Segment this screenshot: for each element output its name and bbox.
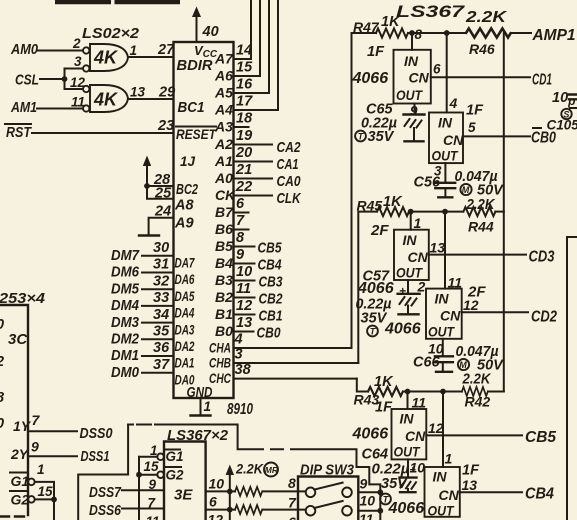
svg-text:DA2: DA2 (175, 338, 195, 354)
svg-text:14: 14 (236, 43, 252, 59)
svg-text:12: 12 (463, 297, 479, 313)
svg-text:11: 11 (359, 511, 374, 520)
junction node to 4066 sw5 (405, 389, 411, 395)
wire R47 to R46 with taps (408, 32, 466, 34)
svg-text:B1: B1 (215, 306, 233, 322)
svg-text:M: M (459, 360, 467, 370)
analog switch 4066 sw1 (394, 27, 431, 104)
svg-text:DM7: DM7 (111, 247, 140, 264)
svg-text:34: 34 (153, 307, 169, 323)
svg-text:DM4: DM4 (111, 297, 140, 314)
svg-text:8: 8 (0, 390, 5, 406)
svg-text:1: 1 (150, 443, 158, 458)
A9 pin 24 to ground (149, 218, 174, 235)
node CHA bus up to R47 (352, 33, 377, 348)
svg-text:6: 6 (209, 494, 217, 510)
svg-text:3: 3 (74, 54, 82, 69)
wire AM0 to gate U?A pin2 (38, 50, 83, 52)
svg-text:BC2: BC2 (176, 182, 198, 198)
enable G2 (pin 15) of 3C (28, 496, 35, 503)
svg-text:4: 4 (449, 95, 458, 111)
svg-text:17: 17 (236, 94, 253, 110)
svg-text:B3: B3 (215, 272, 233, 288)
svg-text:LS367: LS367 (396, 3, 465, 21)
Vcc power arrow pin 40 (196, 15, 198, 42)
svg-text:DM3: DM3 (111, 314, 140, 331)
svg-text:DM5: DM5 (111, 280, 140, 297)
svg-text:DSS7: DSS7 (89, 484, 122, 501)
svg-text:4K: 4K (93, 48, 119, 68)
capacitor C66 0.047u 50V (pin 10) (413, 339, 504, 374)
capacitor C105 10p at right edge (547, 90, 577, 133)
pull-up power arrow (229, 473, 231, 491)
svg-text:DM6: DM6 (111, 264, 140, 281)
svg-text:+: + (399, 284, 406, 298)
svg-text:10: 10 (360, 493, 376, 509)
svg-text:IN: IN (433, 469, 448, 485)
svg-text:DA5: DA5 (175, 288, 195, 304)
analog switch 4066 sw5 (392, 392, 427, 460)
svg-text:A3: A3 (214, 119, 233, 135)
svg-text:CD3: CD3 (529, 249, 555, 266)
wire to BC2 pin 28 and A8 pin 25 (147, 186, 174, 199)
svg-text:0: 0 (0, 416, 4, 432)
svg-text:B5: B5 (215, 238, 233, 254)
svg-text:2.2K: 2.2K (235, 461, 264, 477)
svg-text:6: 6 (236, 196, 245, 212)
node CHB bus up to R45 (358, 212, 377, 363)
svg-text:5: 5 (468, 120, 476, 135)
wire gate1 output to BDIR (129, 56, 174, 58)
wire R42 to summing bus (488, 391, 504, 393)
svg-text:C56: C56 (414, 175, 442, 191)
nor gate 4K (LS02) bottom, pins 12,11 -> 13 (90, 85, 128, 112)
svg-text:2.2K: 2.2K (465, 9, 508, 26)
svg-text:RST: RST (6, 124, 33, 141)
svg-text:12: 12 (208, 512, 224, 520)
svg-text:B7: B7 (215, 204, 234, 220)
svg-text:BC1: BC1 (178, 100, 205, 116)
svg-text:8: 8 (236, 230, 245, 246)
pin 12 wire to CD2 (462, 311, 528, 313)
svg-text:1: 1 (130, 43, 138, 58)
svg-text:AM1: AM1 (10, 99, 37, 116)
svg-text:IN: IN (404, 53, 419, 69)
svg-text:9: 9 (410, 104, 418, 119)
pin 6 wire to CD1 (431, 76, 530, 78)
svg-text:CHA: CHA (209, 341, 231, 356)
svg-text:A1: A1 (214, 153, 233, 169)
resistor R42 2.2K (462, 372, 492, 410)
enable G2 (pin 15) of 3E (157, 471, 164, 478)
svg-text:CD2: CD2 (531, 309, 557, 326)
junction CSL (62, 76, 68, 82)
wire R45 to R44 with taps (409, 211, 463, 213)
enable G1 (pin 1) of 3E (157, 454, 164, 461)
resistor R46 2.2K (465, 9, 511, 57)
svg-text:18: 18 (236, 111, 253, 127)
svg-text:DA6: DA6 (175, 271, 195, 287)
svg-text:CA1: CA1 (277, 156, 299, 173)
svg-text:31: 31 (153, 257, 169, 273)
pin 5 wire to CB0 (463, 135, 530, 137)
svg-text:C66: C66 (413, 355, 441, 371)
svg-text:30: 30 (153, 240, 169, 256)
svg-text:OUT: OUT (394, 444, 421, 460)
svg-text:1F: 1F (367, 44, 385, 60)
svg-text:8: 8 (415, 27, 423, 42)
svg-text:2F: 2F (370, 222, 389, 239)
resistor R43 1K (354, 374, 403, 416)
svg-text:CD1: CD1 (532, 72, 552, 89)
svg-text:IN: IN (435, 291, 450, 307)
resistor R44 2.2K (463, 197, 495, 235)
wire to DIP SW3 row2 (263, 509, 306, 511)
svg-text:4066: 4066 (388, 500, 425, 517)
svg-text:C105: C105 (547, 118, 577, 133)
svg-text:CB1: CB1 (259, 308, 283, 325)
junction node to 4066 sw1 (409, 30, 415, 36)
svg-text:CN: CN (439, 487, 460, 503)
svg-text:2: 2 (417, 279, 426, 295)
svg-text:8: 8 (288, 475, 296, 491)
svg-text:DM1: DM1 (111, 347, 139, 364)
capacitor C57 0.22u 35V (pin 2) (356, 269, 426, 337)
wire RST to RESET pin 23 (32, 132, 174, 134)
svg-text:G1: G1 (11, 473, 30, 489)
svg-text:4066: 4066 (384, 321, 421, 338)
svg-text:CN: CN (443, 132, 464, 148)
nor gate 4K (LS02) top, pins 2,3 -> 1 (90, 44, 128, 71)
svg-text:CB4: CB4 (525, 486, 554, 503)
svg-text:G2: G2 (11, 492, 30, 508)
svg-text:37: 37 (153, 357, 170, 373)
capacitor C65 0.22u 35V (pin 9) (355, 102, 424, 146)
svg-text:11: 11 (448, 275, 463, 291)
switch row 1 (306, 483, 352, 498)
svg-text:15: 15 (144, 459, 160, 474)
svg-text:R42: R42 (465, 394, 491, 410)
svg-text:13: 13 (430, 240, 446, 256)
svg-text:OUT: OUT (396, 87, 423, 103)
power arrow at BC2 (146, 164, 148, 186)
svg-text:3E: 3E (174, 487, 193, 504)
right margin bus with stub (567, 237, 577, 520)
wire R43 to R42 with taps (403, 391, 462, 393)
svg-text:16: 16 (236, 77, 253, 93)
svg-text:DM2: DM2 (111, 331, 140, 348)
svg-text:A9: A9 (174, 216, 194, 232)
svg-text:OUT: OUT (432, 148, 459, 164)
svg-text:1K: 1K (383, 194, 403, 210)
svg-text:1: 1 (204, 399, 212, 414)
svg-text:4066: 4066 (352, 70, 389, 87)
svg-text:CSL: CSL (15, 72, 39, 89)
svg-text:15: 15 (38, 484, 54, 499)
svg-text:4066: 4066 (352, 426, 389, 443)
svg-text:10: 10 (209, 476, 225, 492)
wire gate2 output to BC1 (129, 98, 174, 100)
svg-text:AMP1: AMP1 (532, 27, 576, 44)
svg-text:35V: 35V (368, 129, 395, 145)
svg-text:4K: 4K (93, 90, 119, 110)
node CHC jog down to R43 (357, 379, 368, 392)
svg-text:20: 20 (235, 145, 252, 161)
svg-text:13: 13 (462, 477, 478, 493)
svg-text:B0: B0 (215, 323, 233, 339)
svg-text:23: 23 (157, 118, 174, 134)
svg-text:1: 1 (445, 451, 453, 467)
analog switch 4066 sw6 (425, 392, 481, 519)
svg-text:G2: G2 (166, 468, 185, 483)
IC LS367 location 3E (cut at bottom) (164, 442, 206, 520)
svg-text:B6: B6 (215, 221, 233, 237)
svg-text:OUT: OUT (428, 503, 455, 519)
section continuation dash line (128, 425, 380, 520)
svg-text:B2: B2 (215, 289, 233, 305)
svg-text:DA7: DA7 (175, 255, 196, 271)
svg-text:CB5: CB5 (525, 429, 557, 446)
junction node to 4066 sw4 (442, 209, 448, 215)
svg-text:A4: A4 (214, 102, 233, 118)
svg-text:2: 2 (72, 36, 81, 51)
svg-text:AM0: AM0 (10, 41, 38, 58)
wire R44 to summing bus (495, 211, 503, 213)
svg-text:DSS0: DSS0 (80, 425, 114, 442)
svg-text:RESET: RESET (176, 126, 217, 142)
svg-text:36: 36 (153, 340, 170, 356)
wire CSL to gate inputs 3 and 12 (40, 69, 83, 90)
svg-text:1J: 1J (180, 154, 196, 169)
svg-text:1K: 1K (374, 374, 394, 390)
analog switch 4066 sw4 (426, 212, 486, 340)
svg-text:BDIR: BDIR (177, 58, 214, 74)
svg-text:CB3: CB3 (259, 274, 284, 291)
svg-text:7: 7 (288, 495, 297, 511)
svg-text:OUT: OUT (428, 324, 455, 340)
svg-text:DSS6: DSS6 (89, 502, 122, 519)
svg-text:38: 38 (235, 362, 252, 378)
svg-text:9: 9 (236, 247, 244, 263)
svg-text:1: 1 (414, 215, 422, 231)
svg-text:35V: 35V (361, 311, 388, 327)
svg-text:DM0: DM0 (111, 364, 140, 381)
svg-text:11: 11 (412, 395, 427, 411)
svg-text:MR: MR (265, 465, 279, 475)
svg-text:3: 3 (235, 347, 243, 363)
svg-text:CB0: CB0 (257, 325, 282, 342)
svg-text:21: 21 (235, 162, 252, 178)
wire G1/G2 tie down across DSS7 (138, 457, 140, 520)
svg-text:8910: 8910 (227, 401, 253, 418)
capacitor C64 0.22u 35V (pin 10) (362, 447, 426, 505)
svg-text:M: M (462, 185, 470, 195)
svg-text:19: 19 (236, 128, 252, 144)
svg-text:A5: A5 (214, 85, 233, 101)
resistor R47 1K (353, 14, 408, 38)
svg-text:IN: IN (400, 411, 415, 427)
svg-text:R47: R47 (353, 19, 380, 35)
svg-text:13: 13 (130, 85, 146, 100)
svg-text:CB5: CB5 (258, 240, 283, 257)
svg-text:22: 22 (235, 179, 252, 195)
resistor R45 1K (357, 194, 410, 216)
svg-text:IN: IN (403, 232, 418, 248)
ground (191, 414, 211, 416)
svg-text:4: 4 (234, 332, 243, 348)
svg-text:A8: A8 (174, 198, 194, 214)
svg-text:24: 24 (154, 204, 171, 220)
svg-text:CN: CN (405, 428, 426, 444)
svg-text:2.2K: 2.2K (462, 372, 492, 388)
cut-off IC outline between 3C and 3E (78, 425, 128, 520)
svg-text:7: 7 (32, 412, 41, 428)
circled MR marking (264, 463, 278, 477)
svg-text:DSS1: DSS1 (81, 448, 110, 465)
svg-text:G1: G1 (166, 449, 184, 464)
switch block DIP SW3 (cut at bottom) (298, 477, 358, 520)
svg-text:1K: 1K (381, 14, 401, 30)
svg-text:A7: A7 (214, 51, 234, 67)
svg-text:32: 32 (153, 273, 169, 289)
svg-text:9: 9 (360, 476, 368, 492)
IC 8910 (PSG, location 1J) body (174, 42, 234, 398)
cut-off IC bottom edge at top margin (55, 0, 180, 4)
svg-text:2Y: 2Y (10, 446, 30, 462)
switch row 2 (306, 501, 352, 516)
svg-text:3C: 3C (8, 331, 28, 348)
wire AM1 to gate pin 11 (37, 108, 83, 110)
svg-text:1F: 1F (466, 103, 484, 119)
svg-text:2.2K: 2.2K (466, 197, 496, 213)
junction G1/G2 tie (51, 497, 57, 503)
pull-up resistor 2.2K row1 (235, 461, 264, 496)
svg-text:CHC: CHC (209, 371, 231, 386)
analog switch 4066 sw3 (394, 212, 429, 281)
svg-text:40: 40 (202, 24, 219, 40)
svg-text:DA4: DA4 (175, 305, 195, 321)
svg-text:1: 1 (37, 462, 45, 477)
svg-text:CLK: CLK (277, 190, 302, 207)
svg-text:LS02×2: LS02×2 (82, 26, 139, 42)
svg-text:DA1: DA1 (175, 355, 195, 371)
svg-text:35V: 35V (381, 476, 408, 492)
svg-text:DA3: DA3 (175, 321, 195, 337)
svg-text:2: 2 (0, 354, 4, 370)
svg-text:CN: CN (409, 70, 430, 86)
svg-text:CB2: CB2 (259, 291, 284, 308)
svg-text:R46: R46 (469, 41, 495, 57)
svg-text:33: 33 (153, 290, 169, 306)
junction node to 4066 sw2 (444, 30, 450, 36)
svg-text:CN: CN (440, 308, 461, 324)
svg-text:6: 6 (288, 514, 296, 520)
junction node to 4066 sw6 (440, 389, 446, 395)
ground (139, 234, 159, 236)
svg-text:A6: A6 (214, 68, 233, 84)
svg-text:R45: R45 (357, 198, 383, 214)
svg-text:6: 6 (433, 62, 441, 77)
svg-text:CA2: CA2 (277, 139, 302, 156)
junction node to 4066 sw3 (408, 209, 414, 215)
summing bus vertical (AMP1 node down to R44, R42) (503, 33, 505, 392)
pull-up resistor 2.2K row2 (235, 505, 262, 514)
svg-text:35: 35 (153, 324, 170, 340)
wire to DIP SW3 row1 (263, 490, 306, 492)
svg-text:11: 11 (146, 514, 160, 520)
svg-text:A0: A0 (214, 170, 233, 186)
svg-text:13: 13 (236, 315, 252, 331)
svg-text:10: 10 (236, 264, 252, 280)
svg-text:CA0: CA0 (277, 173, 302, 190)
svg-text:1F: 1F (375, 400, 393, 416)
svg-text:25: 25 (154, 186, 172, 202)
svg-text:7: 7 (236, 213, 245, 229)
pin 13 wire to CB4 (460, 491, 522, 493)
svg-text:9: 9 (31, 439, 39, 455)
svg-text:R44: R44 (468, 219, 494, 235)
svg-text:12: 12 (236, 298, 252, 314)
svg-text:12: 12 (428, 420, 444, 436)
enable G1 (pin 1) of 3C (28, 479, 35, 486)
svg-text:0: 0 (0, 317, 4, 333)
analog switch 4066 sw2 (429, 33, 484, 164)
svg-text:CHB: CHB (209, 356, 231, 371)
svg-text:15: 15 (236, 60, 253, 76)
svg-text:4066: 4066 (357, 280, 394, 297)
pin 13 wire to CD3 (429, 254, 526, 256)
capacitor C56 0.047u 50V (pin 3) (414, 163, 505, 198)
wire to AMP1 (511, 32, 531, 34)
svg-text:B4: B4 (215, 255, 233, 271)
svg-text:CN: CN (408, 249, 429, 265)
pin 12 wire to CB5 (426, 434, 522, 436)
svg-text:IN: IN (438, 115, 453, 131)
svg-text:CB4: CB4 (258, 257, 283, 274)
svg-text:11: 11 (236, 281, 251, 297)
svg-text:A2: A2 (214, 136, 233, 152)
svg-text:9: 9 (149, 477, 157, 492)
IC LS253 location 3C (cut at left edge) (0, 305, 28, 515)
